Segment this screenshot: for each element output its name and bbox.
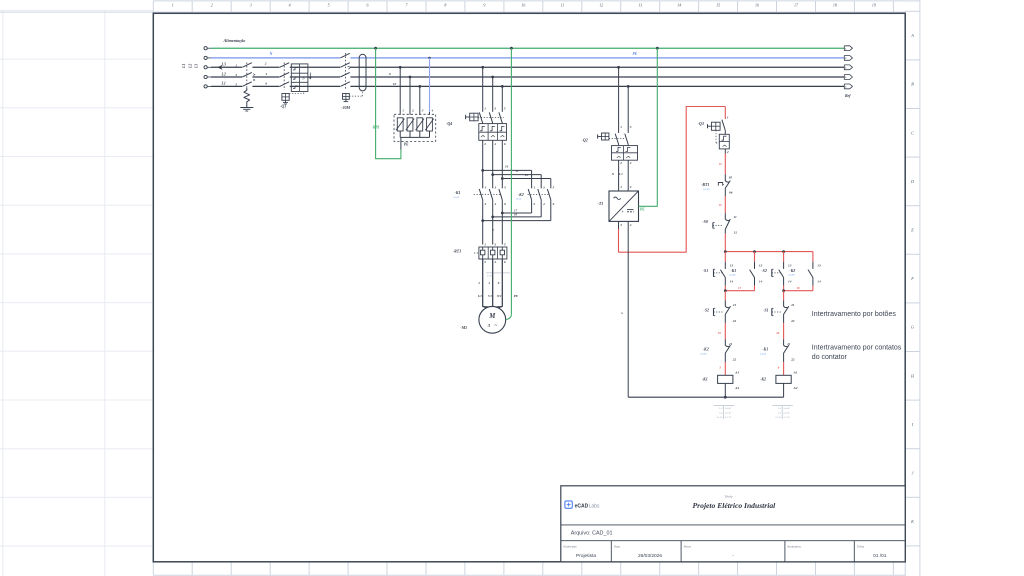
svg-text:3: 3 xyxy=(629,125,632,129)
svg-text:L3: L3 xyxy=(195,64,199,69)
svg-text:4: 4 xyxy=(493,142,496,146)
svg-text:22: 22 xyxy=(732,319,737,323)
svg-text:1: 1 xyxy=(402,109,404,113)
svg-text:-K2: -K2 xyxy=(703,347,709,352)
svg-text:-RT1: -RT1 xyxy=(453,248,461,253)
svg-text:L2: L2 xyxy=(221,72,226,76)
svg-text:10: 10 xyxy=(393,82,397,86)
svg-text:-Q4: -Q4 xyxy=(446,121,452,126)
svg-text:13-14: 13-14 xyxy=(453,196,459,199)
svg-text:PE: PE xyxy=(514,294,519,298)
svg-text:PE: PE xyxy=(640,208,645,212)
svg-text:12: 12 xyxy=(525,173,529,177)
svg-text:3: 3 xyxy=(234,73,237,77)
svg-text:5: 5 xyxy=(504,107,506,111)
svg-text:12: 12 xyxy=(599,3,603,8)
svg-text:17: 17 xyxy=(738,286,742,290)
svg-text:2.4-4C: 2.4-4C xyxy=(782,407,790,410)
svg-text:M: M xyxy=(488,313,496,320)
svg-text:3: 3 xyxy=(542,186,545,190)
svg-text:14: 14 xyxy=(759,279,763,283)
svg-text:2.7-7F: 2.7-7F xyxy=(724,416,732,419)
svg-text:2.7-7F: 2.7-7F xyxy=(782,416,790,419)
svg-text:V1: V1 xyxy=(488,294,492,298)
svg-text:01 /01: 01 /01 xyxy=(873,553,887,559)
svg-text:26/03/2026: 26/03/2026 xyxy=(638,553,662,559)
svg-text:Projetista: Projetista xyxy=(576,553,596,559)
svg-text:2: 2 xyxy=(411,109,414,113)
svg-text:4: 4 xyxy=(431,109,434,113)
svg-text:2: 2 xyxy=(264,62,267,66)
svg-text:12: 12 xyxy=(734,230,738,234)
svg-text:13: 13 xyxy=(719,162,723,166)
svg-text:6: 6 xyxy=(265,82,267,86)
svg-text:~: ~ xyxy=(494,323,497,329)
svg-text:-K1: -K1 xyxy=(762,347,768,352)
svg-text:2.6-6F: 2.6-6F xyxy=(787,274,795,277)
svg-text:-K1: -K1 xyxy=(702,377,708,382)
svg-text:2: 2 xyxy=(483,142,486,146)
svg-text:2: 2 xyxy=(726,150,729,154)
svg-text:Título: Título xyxy=(725,494,733,498)
svg-text:U1: U1 xyxy=(478,294,482,298)
svg-text:2.4-4F: 2.4-4F xyxy=(759,352,767,355)
svg-text:21-22: 21-22 xyxy=(774,416,781,419)
svg-text:Labs: Labs xyxy=(589,503,600,509)
svg-text:1: 1 xyxy=(620,125,622,129)
svg-text:2.4-4C: 2.4-4C xyxy=(724,407,732,410)
svg-text:4: 4 xyxy=(487,281,490,285)
svg-text:Intertravamento por contatos: Intertravamento por contatos xyxy=(812,344,902,351)
svg-text:eCAD: eCAD xyxy=(575,503,589,509)
svg-text:-M1: -M1 xyxy=(460,325,467,330)
svg-text:A1: A1 xyxy=(793,370,798,374)
svg-text:6: 6 xyxy=(389,72,391,76)
svg-text:2: 2 xyxy=(619,161,622,165)
svg-text:1: 1 xyxy=(533,186,535,190)
svg-text:4: 4 xyxy=(542,202,545,206)
svg-text:21: 21 xyxy=(732,303,737,307)
svg-text:-S0: -S0 xyxy=(702,219,708,224)
svg-text:1: 1 xyxy=(484,107,486,111)
svg-text:N: N xyxy=(611,172,615,176)
svg-text:-S2: -S2 xyxy=(761,268,767,273)
svg-text:10: 10 xyxy=(505,164,509,168)
svg-text:5: 5 xyxy=(504,186,506,190)
svg-text:F: F xyxy=(910,276,914,281)
svg-text:L1: L1 xyxy=(182,64,186,69)
svg-text:1: 1 xyxy=(485,186,487,190)
svg-text:-T1: -T1 xyxy=(598,201,604,206)
svg-text:-RPS: -RPS xyxy=(372,126,380,130)
svg-text:6: 6 xyxy=(504,202,506,206)
svg-text:10: 10 xyxy=(521,3,525,8)
svg-text:3: 3 xyxy=(250,3,252,8)
svg-text:95: 95 xyxy=(729,175,733,179)
svg-text:Notas: Notas xyxy=(683,544,692,548)
svg-text:15: 15 xyxy=(716,3,720,8)
svg-text:L1: L1 xyxy=(221,82,226,86)
svg-text:-S2: -S2 xyxy=(704,308,710,313)
svg-text:4: 4 xyxy=(629,223,632,227)
svg-text:14: 14 xyxy=(730,279,734,283)
svg-text:5: 5 xyxy=(504,243,506,247)
svg-text:-S1: -S1 xyxy=(703,268,709,273)
svg-text:Assinatura: Assinatura xyxy=(786,544,801,548)
svg-text:D: D xyxy=(910,179,914,184)
svg-text:L2: L2 xyxy=(188,64,192,69)
svg-text:2.4-4C: 2.4-4C xyxy=(724,412,732,415)
svg-text:-K2: -K2 xyxy=(760,377,766,382)
svg-text:19: 19 xyxy=(718,331,722,335)
svg-text:E: E xyxy=(910,228,914,233)
svg-text:11: 11 xyxy=(515,169,518,173)
svg-text:6: 6 xyxy=(553,202,555,206)
svg-text:4: 4 xyxy=(264,72,267,76)
svg-text:8: 8 xyxy=(444,3,446,8)
svg-text:-Q3: -Q3 xyxy=(698,121,704,126)
svg-text:2: 2 xyxy=(532,202,535,206)
svg-text:16: 16 xyxy=(755,3,759,8)
svg-text:2: 2 xyxy=(477,281,480,285)
svg-text:14: 14 xyxy=(788,279,792,283)
svg-text:A2: A2 xyxy=(734,386,739,390)
svg-text:Intertravamento por botões: Intertravamento por botões xyxy=(812,311,897,318)
svg-text:4: 4 xyxy=(493,260,496,264)
svg-text:1: 1 xyxy=(727,116,729,120)
svg-text:L1: L1 xyxy=(618,172,623,176)
svg-text:9: 9 xyxy=(483,3,485,8)
svg-text:-K2: -K2 xyxy=(789,268,795,273)
svg-text:1: 1 xyxy=(172,3,174,8)
svg-text:Alimentação: Alimentação xyxy=(223,38,246,43)
svg-text:PE: PE xyxy=(633,52,638,56)
svg-text:13: 13 xyxy=(817,263,821,267)
svg-text:14: 14 xyxy=(817,279,821,283)
svg-text:2.4-4F: 2.4-4F xyxy=(728,274,736,277)
svg-text:Data: Data xyxy=(613,544,621,548)
svg-text:PE: PE xyxy=(404,142,409,146)
svg-text:21: 21 xyxy=(790,303,795,307)
svg-text:3: 3 xyxy=(421,109,424,113)
svg-text:4: 4 xyxy=(289,3,291,8)
svg-text:15: 15 xyxy=(719,203,723,207)
svg-text:2: 2 xyxy=(484,202,487,206)
svg-text:B: B xyxy=(911,82,914,87)
svg-text:A1: A1 xyxy=(734,370,739,374)
svg-text:96: 96 xyxy=(729,190,733,194)
svg-text:5: 5 xyxy=(553,186,555,190)
svg-text:2: 2 xyxy=(211,3,213,8)
svg-text:A: A xyxy=(910,33,914,38)
svg-text:K: K xyxy=(910,519,914,524)
svg-text:Projeto Elétrico Industrial: Projeto Elétrico Industrial xyxy=(693,501,777,510)
svg-text:6: 6 xyxy=(367,3,369,8)
svg-text:2.6-6F: 2.6-6F xyxy=(699,352,707,355)
svg-text:-K1: -K1 xyxy=(455,190,461,195)
svg-text:1: 1 xyxy=(620,185,622,189)
svg-text:-RT1: -RT1 xyxy=(701,182,709,187)
svg-text:3: 3 xyxy=(493,107,496,111)
svg-text:18: 18 xyxy=(797,286,801,290)
svg-text:13-14: 13-14 xyxy=(516,197,522,200)
svg-text:21-22: 21-22 xyxy=(716,416,723,419)
svg-text:-J0M: -J0M xyxy=(341,105,350,110)
svg-text:Elaborado: Elaborado xyxy=(562,544,577,548)
svg-text:Folha: Folha xyxy=(856,544,865,548)
svg-text:2: 2 xyxy=(629,185,632,189)
svg-text:22: 22 xyxy=(732,358,737,362)
svg-text:4: 4 xyxy=(629,161,632,165)
svg-text:3: 3 xyxy=(619,223,622,227)
svg-text:2.4-4C: 2.4-4C xyxy=(782,412,790,415)
svg-text:A2: A2 xyxy=(793,386,798,390)
svg-text:18: 18 xyxy=(514,213,518,217)
svg-text:-Q1: -Q1 xyxy=(280,103,286,108)
svg-text:I>: I> xyxy=(301,77,305,80)
svg-text:13: 13 xyxy=(759,263,763,267)
svg-text:-K2: -K2 xyxy=(518,192,524,197)
svg-text:1: 1 xyxy=(484,243,486,247)
svg-text:5: 5 xyxy=(328,3,330,8)
svg-text:14: 14 xyxy=(677,3,681,8)
svg-text:13: 13 xyxy=(638,3,642,8)
svg-text:11: 11 xyxy=(560,3,564,8)
svg-text:G: G xyxy=(911,325,914,330)
svg-text:2: 2 xyxy=(483,260,486,264)
svg-text:Ref: Ref xyxy=(845,94,851,98)
svg-text:4: 4 xyxy=(494,202,497,206)
svg-text:-Q2: -Q2 xyxy=(582,138,588,143)
svg-text:3: 3 xyxy=(494,186,497,190)
svg-text:19: 19 xyxy=(872,3,876,8)
svg-text:-K1: -K1 xyxy=(730,268,736,273)
svg-text:-S1: -S1 xyxy=(763,308,769,313)
svg-text:22: 22 xyxy=(790,319,795,323)
svg-text:22: 22 xyxy=(790,358,795,362)
svg-text:2.2-2E: 2.2-2E xyxy=(702,188,710,191)
svg-text:11: 11 xyxy=(734,215,738,219)
svg-text:6: 6 xyxy=(504,260,506,264)
svg-text:Arquivo: CAD_01: Arquivo: CAD_01 xyxy=(571,530,613,536)
svg-text:do contator: do contator xyxy=(812,354,848,361)
svg-text:20: 20 xyxy=(775,331,780,335)
svg-text:3: 3 xyxy=(493,243,496,247)
svg-text:C: C xyxy=(911,130,914,135)
svg-text:18: 18 xyxy=(833,3,837,8)
svg-text:13: 13 xyxy=(730,263,734,267)
svg-text:W1: W1 xyxy=(497,294,502,298)
svg-text:6: 6 xyxy=(504,142,506,146)
svg-text:13: 13 xyxy=(788,263,792,267)
